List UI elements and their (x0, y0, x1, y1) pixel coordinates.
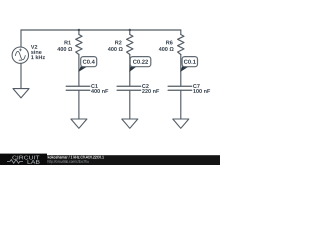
label R6 name (166, 41, 172, 45)
label R2 value (108, 47, 123, 51)
label C1 value (91, 89, 108, 93)
node flag C0.22 text (133, 60, 148, 64)
wire rail to R2 (129, 30, 131, 35)
logo zigzag (7, 160, 23, 164)
wire R2 to C2 (129, 55, 131, 86)
label C2 name (142, 84, 149, 88)
ground source (13, 89, 29, 98)
ground branch 3 (173, 119, 189, 128)
watermark bottom bar (0, 155, 220, 165)
watermark line 1 (48, 156, 104, 159)
label R2 name (115, 41, 121, 45)
wire C7 to ground (180, 90, 182, 119)
node flag C0.4 box (81, 57, 97, 67)
label R6 value (159, 47, 174, 51)
label V2 type (31, 50, 42, 54)
label C7 value (193, 89, 210, 93)
V2 minus sign (19, 59, 22, 61)
label C2 value (142, 89, 159, 93)
label C1 name (91, 84, 98, 88)
node flag C0.4 text (83, 60, 95, 64)
wire C1 to ground (78, 90, 80, 119)
label V2 name (31, 45, 37, 49)
node junction dot 1 (78, 29, 81, 32)
wire top rail (21, 29, 181, 31)
resistor R2 (127, 35, 133, 55)
capacitor C7 (168, 86, 192, 90)
label R1 name (64, 41, 71, 45)
voltage source V2 circle (12, 47, 28, 63)
node flag C0.1 tail (180, 65, 188, 72)
label R1 value (57, 47, 72, 51)
wire V2 bottom to ground (20, 63, 22, 88)
capacitor C2 (117, 86, 141, 90)
ground branch 2 (122, 119, 138, 128)
V2 sine symbol (15, 51, 25, 60)
V2 plus sign (19, 49, 21, 51)
ground branch 1 (71, 119, 87, 128)
capacitor C1 (66, 86, 90, 90)
node flag C0.22 tail (129, 65, 136, 72)
wire rail to R1 (78, 30, 80, 35)
wire rail-left drop to V2 (20, 30, 22, 47)
node flag C0.1 text (184, 60, 196, 64)
wire R1 to C1 (78, 55, 80, 86)
node flag C0.22 box (130, 57, 151, 67)
resistor R1 (76, 35, 82, 55)
logo LAB (28, 160, 40, 164)
node junction dot 2 (129, 29, 132, 32)
wire C2 to ground (129, 90, 131, 119)
watermark line 2 (48, 160, 89, 164)
wire R6 to C7 (180, 55, 182, 86)
node flag C0.4 tail (78, 65, 86, 72)
node flag C0.1 box (182, 57, 197, 67)
resistor R6 (178, 35, 184, 55)
CircuitLab logo box (0, 154, 47, 165)
label V2 value (31, 55, 45, 59)
logo CIRCUIT (12, 156, 39, 160)
wire rail corner to R6 (180, 30, 182, 35)
label C7 name (193, 84, 200, 88)
